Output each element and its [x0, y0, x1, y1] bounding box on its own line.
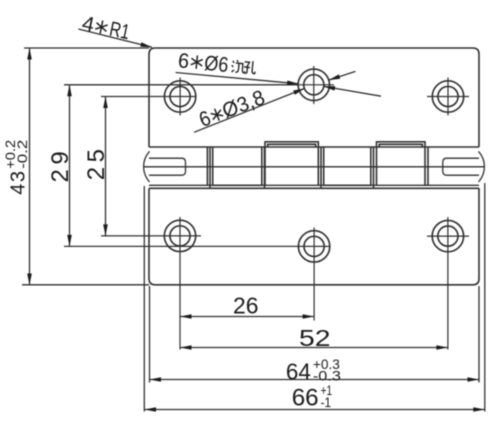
hole B3 crosshair [427, 217, 469, 350]
arrow 52 left [180, 345, 192, 350]
arrow dia6 right [329, 74, 341, 80]
svg-text:43: 43 [7, 170, 29, 195]
hole B1 crosshair [179, 217, 181, 350]
knuckle seg5 (up) outer [377, 142, 426, 186]
arrow 43 top [27, 48, 32, 60]
ext line 66 right [484, 183, 486, 412]
leader dia3.8 right tail [324, 86, 382, 96]
arrow 26 left [180, 314, 192, 319]
ext line 25 bottom (from hole B1) [101, 235, 201, 237]
pin right cap arc [479, 151, 485, 182]
knuckle seg2 inner [213, 147, 262, 185]
arrow dia6 left [287, 81, 299, 86]
text 4*R1 [80, 12, 132, 44]
hole B1 inner [170, 226, 190, 246]
svg-text:6: 6 [177, 49, 190, 73]
svg-text:-0.2: -0.2 [15, 140, 30, 169]
hole B2 outer [298, 231, 329, 262]
ext line 66 left [143, 186, 145, 412]
knuckle seg2 (down) outer [210, 147, 265, 188]
bottom leaf [149, 188, 479, 284]
hole T2 crosshair [296, 66, 334, 104]
svg-text:25: 25 [83, 144, 110, 180]
svg-text:26: 26 [233, 293, 259, 319]
svg-text:R1: R1 [107, 18, 131, 45]
hole T2 inner [304, 75, 324, 95]
barrel: bottom leaf top edge [149, 187, 479, 189]
knuckle seg4 inner [324, 147, 371, 185]
svg-text:Ø6: Ø6 [203, 52, 229, 77]
ext line 29 bottom (from hole B2) [64, 245, 329, 247]
ext line 64 right [478, 286, 480, 383]
ext line 43 top [24, 47, 149, 49]
text 29 [47, 147, 74, 183]
top leaf [149, 48, 479, 147]
text 25 [83, 144, 110, 180]
arrow 25 top [103, 97, 108, 109]
hole T2 outer [298, 69, 329, 100]
hole B2 inner [304, 236, 324, 256]
hole B1 outer [164, 220, 195, 251]
svg-text:66: 66 [292, 385, 319, 412]
hole T1 inner [170, 86, 190, 106]
svg-text:64: 64 [286, 359, 311, 385]
dim line 52 [180, 347, 448, 349]
hole T3 crosshair [427, 78, 469, 116]
svg-text:6: 6 [196, 107, 214, 132]
text chenkong (counterbore) [231, 59, 256, 74]
dim line 64 [150, 379, 480, 381]
dim line 26 [180, 316, 314, 318]
leader dia6 right tail [329, 71, 356, 80]
knuckle seg4 (down) outer [321, 147, 374, 188]
arrow 64 left [150, 377, 162, 382]
svg-text:Ø3,8: Ø3,8 [219, 86, 268, 123]
svg-text:29: 29 [47, 147, 74, 183]
text 6*d3,8 [196, 86, 268, 132]
pin centerline [144, 166, 485, 168]
hole T3 outer [432, 81, 463, 112]
arrow 25 bottom [103, 224, 108, 236]
arrow 29 top [67, 85, 72, 97]
ext line 25 top (from hole T1) [101, 96, 196, 98]
arrow dia3.8 right [324, 86, 336, 91]
pin right head [443, 158, 479, 175]
arrow 66 right [473, 407, 485, 412]
knuckle divider seg1 right edge [206, 147, 208, 185]
hole B3 inner [438, 226, 458, 246]
text 43 with tolerance [3, 140, 30, 195]
arrow 66 left [145, 407, 157, 412]
hole T3 inner [438, 86, 458, 106]
knuckle seg3 inner [268, 144, 316, 147]
pin left cap arc [144, 151, 150, 182]
dim line 43 [29, 48, 31, 285]
knuckle seg5 inner [379, 144, 422, 147]
ext line 43 bottom / leaf bottom extended [22, 284, 149, 286]
arrow 64 right [468, 377, 480, 382]
ext line 64 left [149, 286, 151, 383]
arrow 29 bottom [67, 235, 72, 247]
hole T1 outer [164, 81, 195, 112]
text 6*d6 [177, 49, 257, 79]
barrel: top leaf bottom edge [149, 146, 479, 148]
pin left head [149, 158, 186, 175]
arrow 26 right [303, 314, 315, 319]
hole B2 crosshair [313, 228, 315, 321]
svg-text:52: 52 [299, 325, 331, 351]
hole B3 outer [432, 220, 463, 251]
dim line 29 [69, 85, 71, 247]
leader 4*R1 [78, 29, 152, 47]
arrow dia3.8 left [293, 88, 305, 94]
knuckle seg3 (up) outer [265, 142, 318, 186]
ext line 29 top (from hole T2) [64, 84, 298, 86]
hole T1 crosshair [179, 78, 181, 116]
arrow 4*R1 [140, 42, 152, 47]
svg-text:-1: -1 [321, 394, 332, 410]
dim line 25 [105, 97, 107, 236]
leader dia6 left [176, 73, 299, 84]
knuckle divider seg6 left edge [427, 147, 429, 185]
arrow 52 right [436, 345, 448, 350]
dim line 66 [145, 409, 485, 411]
arrow 43 bottom [27, 274, 32, 286]
barrel strip bottom edge [149, 184, 479, 186]
leader dia3.8 left [194, 88, 305, 132]
